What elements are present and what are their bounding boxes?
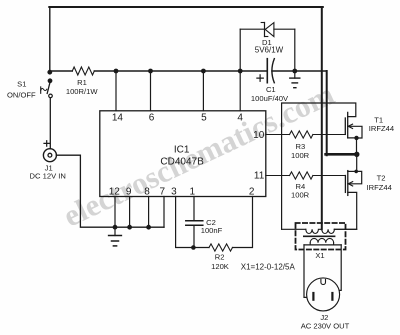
svg-text:T2: T2 xyxy=(377,173,386,182)
svg-text:C1: C1 xyxy=(266,85,276,94)
svg-text:IC1: IC1 xyxy=(174,144,190,155)
svg-text:X1=12-0-12/5A: X1=12-0-12/5A xyxy=(241,263,296,272)
svg-text:R3: R3 xyxy=(296,142,306,151)
svg-text:X1: X1 xyxy=(315,251,324,260)
svg-text:7: 7 xyxy=(160,186,166,197)
svg-text:ON/OFF: ON/OFF xyxy=(7,91,36,100)
svg-text:11: 11 xyxy=(254,170,265,181)
svg-text:100R: 100R xyxy=(291,151,310,160)
svg-text:J2: J2 xyxy=(320,313,328,322)
svg-text:8: 8 xyxy=(144,186,150,197)
svg-text:6: 6 xyxy=(149,112,155,123)
svg-text:1: 1 xyxy=(190,186,196,197)
svg-text:5V6/1W: 5V6/1W xyxy=(255,46,284,55)
svg-text:100uF/40V: 100uF/40V xyxy=(251,94,289,103)
svg-text:120K: 120K xyxy=(211,262,229,271)
svg-text:AC 230V OUT: AC 230V OUT xyxy=(301,322,350,331)
svg-text:12: 12 xyxy=(109,186,121,197)
svg-text:9: 9 xyxy=(126,186,132,197)
svg-text:2: 2 xyxy=(249,186,255,197)
svg-text:14: 14 xyxy=(112,112,124,123)
svg-text:IRFZ44: IRFZ44 xyxy=(369,124,394,133)
svg-text:IRFZ44: IRFZ44 xyxy=(367,183,392,192)
svg-text:CD4047B: CD4047B xyxy=(160,156,204,167)
svg-text:3: 3 xyxy=(171,186,177,197)
svg-text:100R/1W: 100R/1W xyxy=(66,87,98,96)
svg-text:10: 10 xyxy=(253,130,265,141)
svg-text:R1: R1 xyxy=(77,78,87,87)
svg-text:S1: S1 xyxy=(17,80,26,89)
svg-text:DC 12V IN: DC 12V IN xyxy=(30,171,66,180)
svg-text:5: 5 xyxy=(201,112,207,123)
svg-text:4: 4 xyxy=(237,112,243,123)
svg-text:100R: 100R xyxy=(291,191,310,200)
svg-text:R2: R2 xyxy=(215,253,225,262)
svg-text:100nF: 100nF xyxy=(201,226,223,235)
